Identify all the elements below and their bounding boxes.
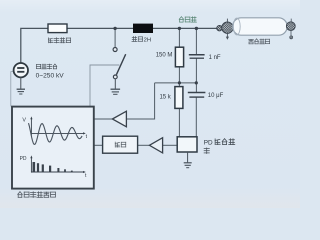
cable body bbox=[233, 18, 288, 35]
svg-text:15 k: 15 k bbox=[159, 95, 171, 101]
capacitor C2 10uF bbox=[188, 93, 206, 98]
ground below DC source bbox=[17, 77, 25, 94]
switch blade bbox=[116, 54, 125, 74]
cable termination left small bbox=[217, 26, 222, 31]
capacitor C1 1nF bbox=[189, 55, 205, 59]
label 电感2H bbox=[132, 37, 137, 42]
resistor R1 150M bbox=[175, 47, 183, 67]
op-amp U1 bbox=[112, 111, 126, 127]
wire tap down to amplifier U1 input bbox=[126, 83, 154, 119]
switch bottom terminal bbox=[113, 75, 117, 79]
termination stub above bbox=[226, 19, 228, 22]
software box 后台分析软件 bbox=[12, 107, 94, 189]
label 滤波 bbox=[115, 142, 119, 147]
V plot axes bbox=[31, 118, 84, 135]
wire switch drop bbox=[114, 28, 116, 47]
PD coupling unit box bbox=[177, 137, 197, 152]
svg-text:V: V bbox=[22, 117, 26, 123]
termination arrow below bbox=[226, 33, 228, 37]
wire capacitor branch top bbox=[195, 28, 197, 54]
wire amplifier U1 output to software box bbox=[94, 118, 113, 120]
node tap-R junction bbox=[178, 81, 181, 84]
damped oscillation waveform bbox=[29, 123, 83, 144]
svg-text:10 μF: 10 μF bbox=[208, 93, 224, 99]
ground below PD coupling unit bbox=[184, 152, 192, 168]
resistor current-limiting 限流电阻 bbox=[48, 24, 67, 33]
resistor R2 15k bbox=[175, 87, 183, 109]
node capacitor branch junction bbox=[195, 27, 198, 30]
wire C1 to C2 bbox=[195, 58, 197, 92]
node switch tap junction bbox=[113, 27, 116, 30]
wire DC source to software box bbox=[11, 72, 14, 107]
right termination stub above bbox=[290, 19, 292, 22]
wire divider tap bbox=[155, 82, 197, 84]
node resistor branch junction bbox=[178, 27, 181, 30]
PD plot axes bbox=[31, 157, 84, 173]
svg-text:0~250 kV: 0~250 kV bbox=[36, 73, 65, 80]
label DC source 直流电源 bbox=[37, 64, 41, 68]
cable inner end arc bbox=[233, 18, 240, 35]
switch top terminal bbox=[113, 48, 117, 52]
label 分压器 (green) bbox=[179, 17, 183, 22]
svg-text:150 M: 150 M bbox=[156, 52, 173, 58]
wire R2 to PD coupling unit bbox=[178, 108, 180, 136]
label 后台分析软件 bbox=[18, 192, 23, 198]
wire software box to filter box bbox=[94, 144, 103, 146]
node tap-C junction bbox=[195, 81, 198, 84]
DC source circle bbox=[14, 63, 28, 77]
PD pulse bars bbox=[33, 162, 36, 172]
svg-text:2H: 2H bbox=[144, 37, 151, 43]
cable termination right bbox=[286, 22, 295, 31]
right termination tail bbox=[290, 31, 292, 36]
wire C2 to PD coupling unit bbox=[195, 97, 197, 137]
wire resistor branch top bbox=[178, 28, 180, 47]
filter box 滤波 bbox=[103, 136, 138, 153]
op-amp U2 bbox=[149, 138, 162, 153]
svg-text:PD: PD bbox=[20, 156, 27, 162]
wire main HV bus bbox=[21, 28, 218, 63]
inductor L1 2H bbox=[133, 24, 153, 33]
label 限流电阻 bbox=[48, 38, 52, 43]
wire trigger line box to switch bbox=[90, 65, 119, 107]
label 试验电缆 bbox=[249, 39, 254, 44]
svg-text:PD: PD bbox=[204, 140, 213, 147]
wire filter box to amplifier U2 bbox=[138, 144, 150, 146]
ground below switch bbox=[111, 79, 121, 94]
wire amplifier U2 to PD coupling unit bbox=[162, 144, 177, 146]
svg-text:1 nF: 1 nF bbox=[209, 55, 221, 61]
cable termination left large bbox=[222, 22, 233, 33]
wire R1 to R2 bbox=[178, 67, 180, 87]
